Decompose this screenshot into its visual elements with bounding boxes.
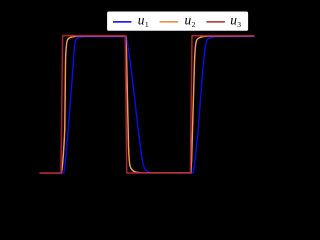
svg-text:u: u	[138, 13, 145, 28]
legend frame	[107, 11, 249, 31]
svg-text:u: u	[230, 13, 237, 28]
legend sample line u1	[113, 21, 132, 23]
curve u3 (dark red, near-vertical transitions)	[40, 36, 255, 174]
legend label u1	[138, 13, 149, 29]
svg-text:1: 1	[145, 20, 149, 29]
legend sample line u2	[160, 21, 179, 23]
curve u1 (blue, slowest transitions)	[40, 37, 255, 174]
svg-text:u: u	[185, 13, 192, 28]
legend label u2	[185, 13, 196, 29]
svg-text:2: 2	[192, 20, 196, 29]
legend sample line u3	[206, 21, 225, 23]
curve u2 (orange, medium transitions)	[40, 36, 255, 173]
legend label u3	[230, 13, 241, 29]
svg-text:3: 3	[237, 20, 241, 29]
